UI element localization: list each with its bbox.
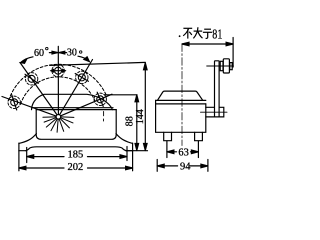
switch body left view: body top flange line — [36, 109, 116, 111]
angular dimension 60: arc segment to left lever with arrow — [21, 57, 33, 62]
wire: hidden dash below right roller — [103, 112, 105, 116]
roller right: dashed outer circle — [94, 93, 106, 105]
wire: lever line L5 (right position) — [61, 94, 112, 116]
svg-text:30: 30 — [67, 47, 77, 58]
angular dimension: centre arrows — [49, 52, 57, 54]
side view: right foot — [195, 132, 203, 140]
mounting bracket: lower-left S curve and bottom edge — [26, 147, 126, 151]
dimension 94: line — [157, 165, 177, 167]
side view: lever bar — [215, 61, 220, 117]
dimension 202: extension lines — [18, 151, 20, 171]
angular dimension 30: arc segment to right lever with arrow — [78, 56, 89, 61]
wire: lever line L3 (vertical position, extends to tick) — [57, 46, 59, 114]
dimension 144: extension line at lever top level — [50, 62, 146, 65]
side view: roller — [223, 59, 229, 73]
wire: dashed swing arc inner — [21, 77, 96, 104]
wire: lever line L2 (upper-left position) — [20, 63, 57, 115]
roller upper-right: inner circle — [78, 74, 85, 81]
svg-text:63: 63 — [178, 147, 189, 158]
roller upper-right: dashed outer circle — [76, 71, 88, 83]
svg-text:202: 202 — [68, 162, 84, 173]
label: leading dot before chinese text — [179, 35, 181, 37]
label: char DA (big) drawn strokes — [193, 27, 202, 38]
roller left: inner circle — [11, 99, 18, 106]
dimension 63: line — [167, 151, 177, 153]
side view: vertical centre line (dash-dot) — [181, 44, 183, 146]
mounting bracket: left foot — [19, 143, 26, 151]
node: pivot hub star spokes — [43, 117, 74, 132]
side view: left foot — [164, 132, 172, 140]
svg-text:144: 144 — [135, 109, 146, 124]
switch body left view: bell lid — [32, 94, 113, 109]
dimension 185: extension lines — [26, 148, 28, 163]
dimension 202: line — [19, 167, 64, 169]
mounting bracket: upper-right S curve — [116, 134, 133, 144]
roller top: cross tick with end arrows — [51, 70, 65, 72]
side view: body box — [156, 100, 206, 132]
roller upper-left: cross tick — [25, 74, 38, 83]
roller left: dashed outer circle — [8, 96, 20, 108]
svg-text:60: 60 — [34, 48, 44, 59]
side view: lid — [157, 91, 202, 100]
dimension 144: vertical line with arrows — [144, 63, 146, 151]
roller top: inner circle — [55, 67, 62, 74]
side view: axle end cap — [230, 63, 232, 70]
side view: shaft hub outline — [206, 107, 224, 117]
roller top: dashed outer circle — [52, 65, 64, 77]
wire: lever line L1 (left position) — [2, 97, 56, 116]
label: char BU (not) drawn strokes — [183, 28, 192, 38]
roller left: cross tick — [12, 95, 17, 110]
roller upper-right: cross tick — [75, 74, 88, 82]
node: pivot hub circle — [56, 115, 61, 120]
roller right: inner circle — [97, 96, 104, 103]
side view: shaft axis line — [201, 111, 228, 113]
roller right: cross tick — [97, 92, 103, 106]
side view: roller washer — [220, 61, 223, 70]
dimension 88: vertical line with arrows — [136, 95, 138, 151]
label: char YU (than) drawn strokes — [203, 29, 212, 38]
switch body left view: lid lower flange line — [32, 107, 113, 109]
dimension bu-da-yu-81: right extension line — [232, 38, 234, 68]
mounting bracket: upper-left S curve — [19, 134, 37, 144]
mounting bracket: right foot — [126, 143, 133, 151]
svg-text:185: 185 — [68, 150, 84, 161]
dimension 185: line — [27, 156, 64, 158]
dimension 63: extension lines — [166, 141, 168, 158]
svg-text:94: 94 — [180, 161, 191, 172]
svg-text:81: 81 — [212, 26, 222, 42]
dimension 88/144: shared bottom extension line — [126, 150, 148, 152]
roller upper-left: inner circle — [28, 75, 35, 82]
side view: flange line lower — [156, 103, 206, 105]
side view: flange line upper — [156, 99, 206, 101]
wire: dashed swing arc outer — [9, 64, 107, 100]
wire: lever line L4 (upper-right 30 deg position) — [60, 60, 93, 115]
dimension 88: extension line at lid top level — [105, 94, 138, 96]
roller upper-left: dashed outer circle — [25, 73, 37, 85]
switch body left view: body outline — [36, 110, 116, 140]
side view: roller axle line — [207, 65, 234, 67]
dimension 94: extension bars — [156, 160, 158, 172]
dimension bu-da-yu-81: line with arrows — [182, 43, 233, 45]
